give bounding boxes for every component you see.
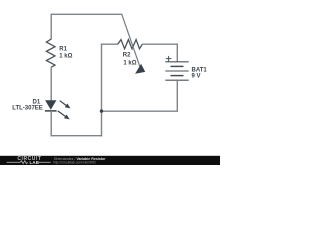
svg-text:LAB: LAB	[30, 160, 40, 165]
svg-text:D1: D1	[33, 99, 41, 105]
svg-text:R1: R1	[59, 47, 67, 53]
wire D1 bottom lead vertical	[50, 111, 52, 136]
wire battery bottom lead	[176, 80, 178, 112]
resistor R1	[46, 39, 55, 67]
rheostat R2 wiper arrow	[122, 14, 146, 74]
wire R2 right lead to battery	[142, 43, 178, 45]
wire R1 bottom to D1	[50, 67, 52, 101]
svg-text:R2: R2	[123, 53, 131, 59]
wire R2 left lead	[101, 43, 118, 45]
watermark bar	[0, 156, 220, 165]
junction node	[100, 109, 103, 112]
svg-text:http://circuitlab.com/ckm99f2: http://circuitlab.com/ckm99f2	[53, 161, 96, 165]
wire top horizontal from R1 top to wiper corner	[51, 13, 123, 15]
watermark logo underline left	[7, 161, 21, 163]
wire R1 top lead vertical	[50, 14, 52, 40]
watermark logo zigzag	[20, 161, 28, 164]
svg-text:1 kΩ: 1 kΩ	[123, 61, 136, 67]
wire battery top lead	[176, 44, 178, 63]
watermark logo underline right	[39, 161, 51, 163]
svg-text:1 kΩ: 1 kΩ	[59, 54, 72, 60]
battery BAT1	[165, 56, 188, 80]
LED D1	[45, 100, 71, 119]
wire bottom horizontal	[51, 135, 103, 137]
svg-text:9 V: 9 V	[192, 74, 201, 80]
resistor R2 rheostat body	[118, 40, 143, 49]
svg-text:BAT1: BAT1	[192, 67, 208, 73]
svg-text:LTL-307EE: LTL-307EE	[12, 105, 43, 111]
wire left-middle vertical R2 terminal down to bottom	[101, 44, 103, 137]
wire middle horizontal battery to junction	[101, 110, 178, 112]
